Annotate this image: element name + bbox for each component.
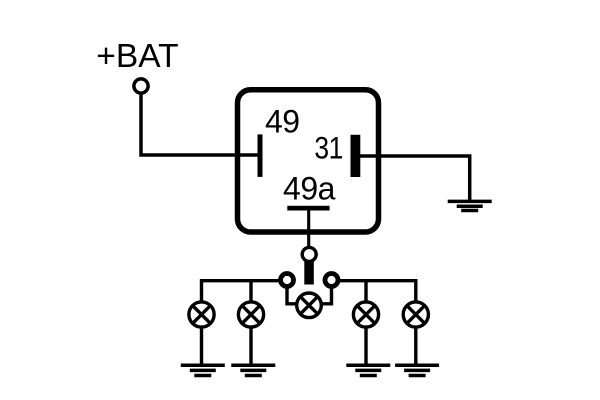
svg-text:31: 31 xyxy=(314,131,343,166)
wire 31 to ground xyxy=(356,156,470,202)
lamp L1 xyxy=(189,302,214,327)
wire contact right to pilot lamp xyxy=(316,286,332,304)
switch lever xyxy=(304,260,314,285)
ground G4 xyxy=(346,365,390,375)
switch contact left xyxy=(281,274,294,287)
lamp L2 xyxy=(238,302,263,327)
terminal 31 xyxy=(351,135,361,177)
wire contact left to pilot lamp xyxy=(287,286,302,304)
wire lamp L3 xyxy=(364,281,367,366)
pilot lamp P xyxy=(297,293,322,318)
svg-text:49a: 49a xyxy=(283,171,336,207)
wire right rail xyxy=(332,281,416,366)
wire lamp L2 xyxy=(249,281,252,366)
terminal +BAT xyxy=(134,79,148,93)
svg-text:+BAT: +BAT xyxy=(96,38,178,75)
lamp L4 xyxy=(403,302,428,327)
wire 49a to switch pivot xyxy=(307,210,310,254)
ground G2 xyxy=(181,365,225,375)
terminal 49 xyxy=(258,134,263,177)
lamp L3 xyxy=(353,302,378,327)
ground G3 xyxy=(231,365,275,375)
switch pivot xyxy=(302,247,316,261)
wire +BAT terminal to relay pin 49 xyxy=(141,90,260,155)
ground G5 xyxy=(395,365,439,375)
ground G1 xyxy=(448,201,492,210)
wire left rail xyxy=(202,281,288,366)
relay box U1 xyxy=(238,90,379,232)
switch contact right xyxy=(325,274,338,287)
svg-text:49: 49 xyxy=(265,104,300,140)
terminal 49a xyxy=(287,206,329,211)
